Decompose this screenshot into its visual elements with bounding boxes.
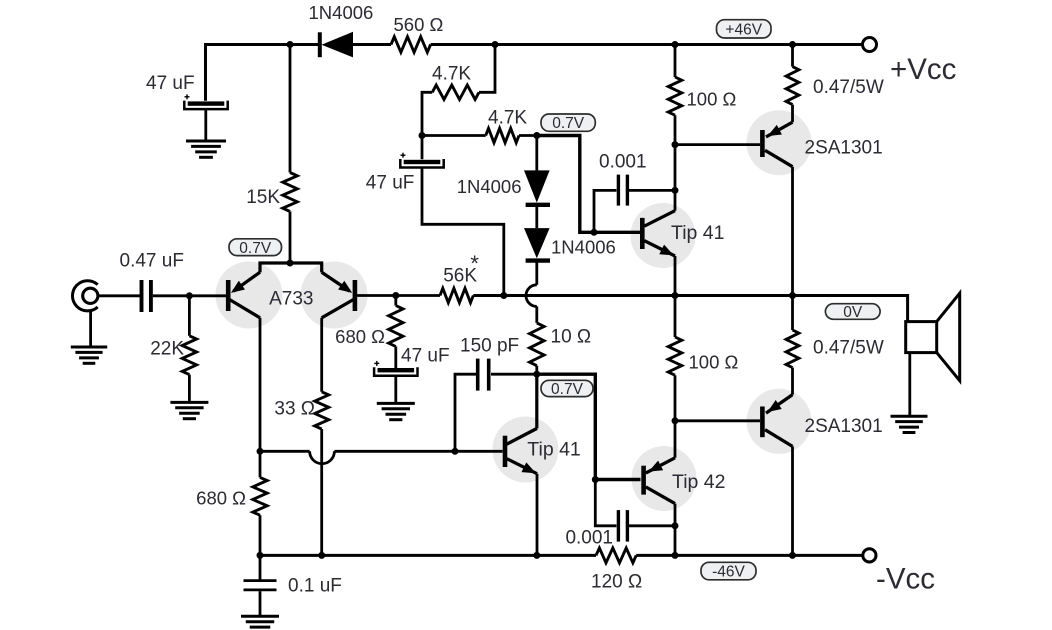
resistor R680b 680Ω (253, 477, 267, 515)
wire rail to R100a (674, 45, 677, 78)
capacitor C5 150pF (476, 359, 480, 391)
node Q2 base / R680a (392, 292, 399, 299)
node bottom rail / R33 (318, 552, 325, 559)
wire jack shell to ground (89, 311, 92, 347)
svg-text:0.001: 0.001 (565, 528, 613, 549)
node Q4 collector / C7 (672, 187, 679, 194)
input RCA jack center pin (83, 288, 98, 303)
node bottom rail / R10 string (533, 552, 540, 559)
svg-text:+Vcc: +Vcc (890, 53, 956, 86)
svg-text:0.47 uF: 0.47 uF (120, 251, 184, 272)
svg-text:33 Ω: 33 Ω (274, 399, 315, 420)
wire node to R680b (259, 451, 262, 477)
label -46V box (701, 562, 756, 580)
svg-text:0.7V: 0.7V (552, 115, 585, 132)
node R100a / Q3 base (672, 141, 679, 148)
wire D3 down to hop (535, 261, 538, 285)
wire 0.7V lower to Tip42 base (537, 374, 641, 479)
wire node down to Q4 collector (674, 145, 677, 191)
node Q6 collector / C8 (672, 522, 679, 529)
node 0.7V lower (driver bias) (533, 371, 540, 378)
label 0.7V box (driver bias) (541, 380, 593, 396)
svg-text:680 Ω: 680 Ω (335, 326, 385, 347)
wire 0.7V lower down to Q5 collector (535, 374, 538, 428)
transistor Q7 2SA1301: collector diagonal (765, 430, 793, 447)
wire bias line left segment (260, 450, 310, 453)
wire C8 branch (595, 480, 616, 526)
label 0V box (825, 304, 880, 320)
wire R4.7Ka to node (422, 92, 432, 135)
diode D3 1N4006 (down) (524, 228, 550, 258)
svg-text:2SA1301: 2SA1301 (805, 138, 883, 159)
node midline / Q3 collector (789, 292, 796, 299)
wire Q5 emitter to bottom rail (536, 474, 539, 556)
wire hop over R33 line (bias line) (310, 451, 335, 463)
wire C4 to midline (422, 168, 504, 296)
wire C2 to Q1 base (153, 294, 226, 297)
transistor Q5 collector diagonal (507, 428, 537, 444)
node top rail / R100-a (672, 41, 679, 48)
wire D2 to D3 (535, 205, 538, 228)
resistor R10 10Ω (530, 323, 545, 366)
ground below C6 (241, 615, 279, 618)
svg-text:150 pF: 150 pF (460, 336, 519, 357)
wire midline to R100b (674, 296, 677, 338)
transistor Q1 collector diagonal (230, 300, 261, 318)
capacitor C3 47uF (polarized) (378, 368, 415, 372)
wire C1 to ground (204, 109, 207, 141)
node bottom rail / Q7 collector (789, 552, 796, 559)
resistor R100a 100Ω (668, 77, 682, 115)
wire node to R22K (188, 296, 191, 336)
svg-text:1N4006: 1N4006 (309, 2, 374, 23)
node emitter bus / R15K (287, 260, 294, 267)
resistor R680a 680Ω (389, 306, 403, 347)
wire node to R4.7Kb (422, 134, 486, 137)
speaker horn (937, 293, 960, 381)
ground below R22K (170, 401, 208, 404)
wire Q6 collector to bottom rail (674, 526, 677, 556)
node top rail / R0.47-a (789, 41, 796, 48)
svg-text:680 Ω: 680 Ω (196, 488, 246, 509)
svg-text:47 uF: 47 uF (146, 73, 195, 94)
node midline / 47uF branch (500, 292, 507, 299)
wire speaker to ground (908, 353, 911, 417)
wire R10 to node (535, 366, 538, 375)
wire top rail right section (431, 43, 863, 46)
transistor Q6 Tip42: base bar (641, 466, 646, 495)
wire C6 to ground (259, 591, 262, 616)
resistor R560 560Ω (top rail) (391, 37, 431, 53)
svg-text:Tip 42: Tip 42 (672, 471, 725, 493)
svg-text:0V: 0V (843, 304, 863, 321)
node 4.7K junction / C4 (419, 132, 426, 139)
transistor Q5 Tip41: base bar (503, 436, 508, 467)
node 0.7V bias top (533, 132, 540, 139)
wire top rail left + drop to C1 (206, 45, 319, 101)
wire C5 left plate to bias line (455, 374, 476, 451)
svg-text:0.47/5W: 0.47/5W (813, 338, 884, 359)
wire Q7 base line (675, 419, 760, 422)
svg-text:+46V: +46V (725, 21, 762, 38)
transistor Q2 A733 right: base bar (353, 280, 358, 311)
svg-text:1N4006: 1N4006 (551, 237, 616, 258)
svg-text:100 Ω: 100 Ω (687, 89, 737, 110)
resistor R0.47b 0.47/5W (786, 330, 799, 368)
ground below C1 (186, 140, 226, 143)
wire R22K to ground (188, 375, 191, 403)
ground below C3 (377, 402, 415, 405)
label +46V box (717, 20, 772, 38)
node bias line / C5 (452, 448, 459, 455)
wire R0.47b to Q7 emitter (791, 368, 794, 395)
transistor Q4 Tip41: base bar (640, 218, 645, 249)
svg-text:-Vcc: -Vcc (876, 563, 935, 596)
wire hop to R10 (535, 306, 538, 323)
wire R100b to Q6 emitter (674, 375, 677, 458)
resistor R100b 100Ω (668, 337, 682, 375)
wire Q7 collector to bottom rail (791, 446, 794, 555)
label 0.7V box (bias top) (541, 114, 595, 131)
transistor Q3 2SA1301: emitter diagonal + arrow (766, 122, 793, 137)
node midline / Q4 emitter (672, 292, 679, 299)
wire Q4 collector vertical (674, 190, 677, 210)
A733 pair highlight circles (216, 262, 283, 329)
node bottom rail / R680b / C6 (257, 552, 264, 559)
svg-text:47 uF: 47 uF (366, 173, 415, 194)
wire C7 to collector node (629, 189, 675, 192)
wire Q6 collector down (674, 504, 677, 526)
wire rail to R0.47a (791, 45, 794, 67)
transistor Q5 emitter diagonal + arrow (507, 459, 537, 474)
svg-text:Tip 41: Tip 41 (671, 222, 724, 244)
wire bias line to Q5 base (334, 450, 502, 453)
ground below jack (71, 346, 107, 349)
node Q7 base tap (672, 417, 679, 424)
diode D2 1N4006 (down) (524, 170, 550, 202)
wire R4.7Kb to 0.7V node (519, 134, 537, 137)
svg-text:10 Ω: 10 Ω (551, 327, 592, 348)
transistor Q7 2SA1301: base bar (760, 407, 765, 438)
wire node to R680a (394, 296, 397, 306)
svg-text:1N4006: 1N4006 (457, 176, 522, 197)
wire rail to R15K (289, 45, 292, 173)
transistor Q3 2SA1301: base bar (760, 130, 765, 157)
resistor R4.7Ka 4.7K (432, 85, 479, 99)
wire jack to C2 (98, 294, 140, 297)
svg-text:*: * (470, 251, 479, 276)
wire R0.47a to Q3 emitter (791, 105, 794, 123)
wire C7 branch (594, 190, 616, 232)
capacitor C1 47uF (polarized) (188, 101, 225, 105)
transistor Q1 A733 left: base bar (226, 280, 231, 311)
resistor R0.47a 0.47/5W (786, 67, 799, 105)
svg-text:22K: 22K (150, 339, 184, 360)
input RCA jack outer shell (72, 281, 97, 311)
svg-text:0.47/5W: 0.47/5W (813, 77, 884, 98)
ground below speaker (891, 415, 928, 418)
svg-text:15K: 15K (246, 187, 280, 208)
wire midline to R0.47b (791, 296, 794, 331)
terminal -Vcc (863, 549, 876, 562)
wire Q3 collector to midline (791, 167, 794, 296)
wire node to C5 right plate (491, 373, 537, 376)
resistor R4.7Kb 4.7K (486, 128, 519, 142)
node top rail / R15K (287, 41, 294, 48)
speaker box (906, 322, 937, 353)
wire Q4 emitter to midline (674, 256, 677, 296)
capacitor C8 0.001 (617, 510, 620, 541)
svg-text:4.7K: 4.7K (432, 64, 471, 85)
transistor Q6 Tip42: collector diagonal (646, 487, 675, 504)
wire Q2 collector down to R33 (320, 318, 323, 392)
svg-text:120 Ω: 120 Ω (591, 572, 642, 593)
resistor R22K 22K (182, 336, 196, 375)
wire R680b to bottom rail (259, 515, 262, 555)
node Q6 base / C8 branch (592, 476, 599, 483)
capacitor C6 0.1uF (244, 579, 277, 582)
resistor R120 120Ω (bottom rail) (596, 548, 636, 563)
transistor Q2 collector diagonal (322, 300, 354, 318)
svg-text:4.7K: 4.7K (488, 108, 527, 129)
wire C8 to Q6 collector node (629, 524, 674, 527)
wire R33 to bottom rail (320, 429, 323, 555)
node Q4 base / C7 (591, 229, 598, 236)
wire rail to R4.7Ka (479, 45, 495, 93)
capacitor C7 0.001 (617, 175, 620, 206)
svg-text:-46V: -46V (712, 564, 745, 581)
transistor Q1 emitter diagonal + arrow (234, 272, 261, 291)
label 0.7V box (A733 emitters) (229, 239, 282, 256)
resistor R33 33Ω (315, 392, 329, 429)
svg-text:100 Ω: 100 Ω (689, 352, 739, 373)
transistor Q3 2SA1301: collector diagonal (765, 150, 793, 166)
wire 0.7V top to Q4 base (537, 136, 640, 233)
svg-text:47 uF: 47 uF (401, 346, 450, 367)
wire 0.7V node to D2 (535, 136, 538, 171)
wire bottom rail right (636, 554, 863, 557)
wire Q1 collector down (259, 318, 262, 452)
transistor Q2 emitter diagonal + arrow (322, 272, 350, 291)
transistor Q4 Tip41: collector diagonal (644, 211, 675, 227)
node top rail / R4.7K-a branch (492, 41, 499, 48)
svg-text:0.7V: 0.7V (239, 240, 272, 257)
wire C3 to ground (394, 376, 397, 403)
wire Q3 base line (675, 143, 760, 146)
wire Q2 base to R56K (357, 294, 440, 297)
wire top rail between D1 and R560 (352, 43, 391, 46)
wire R680a to C3 (394, 347, 397, 369)
wire A733 emitter bus (260, 263, 322, 272)
wire hop over midline (diode string) (526, 285, 537, 307)
wire R15K to emitter bus (289, 212, 292, 264)
driver/output transistor highlight circles (631, 203, 696, 268)
node bottom rail / Q6 collector (672, 552, 679, 559)
svg-text:A733: A733 (269, 288, 313, 309)
node input / R22K (186, 292, 193, 299)
capacitor C2 0.47uF (140, 280, 144, 312)
diode D1 1N4006 (top rail, pointing left) (318, 32, 322, 57)
transistor Q4 Tip41: emitter diagonal + arrow (644, 241, 675, 256)
resistor R15K 15K (283, 173, 298, 212)
svg-text:0.1 uF: 0.1 uF (288, 576, 342, 597)
svg-text:560 Ω: 560 Ω (394, 14, 444, 35)
svg-text:0.001: 0.001 (599, 152, 647, 173)
node Q1 collector / R680b (257, 448, 264, 455)
svg-text:0.7V: 0.7V (551, 381, 584, 398)
resistor R56K 56K (440, 288, 473, 302)
wire midline output (473, 296, 907, 322)
terminal +Vcc (863, 38, 877, 52)
svg-text:2SA1301: 2SA1301 (805, 416, 883, 437)
capacitor C4 47uF (polarized) (421, 136, 424, 160)
wire rail to C6 (259, 555, 262, 579)
wire R100a to Q3 base node (674, 115, 677, 144)
svg-text:Tip 41: Tip 41 (527, 439, 580, 461)
transistor Q7 2SA1301: emitter diagonal + arrow (766, 395, 793, 414)
wire bottom rail left (260, 554, 596, 557)
transistor Q6 Tip42: emitter diagonal + arrow (646, 458, 675, 473)
